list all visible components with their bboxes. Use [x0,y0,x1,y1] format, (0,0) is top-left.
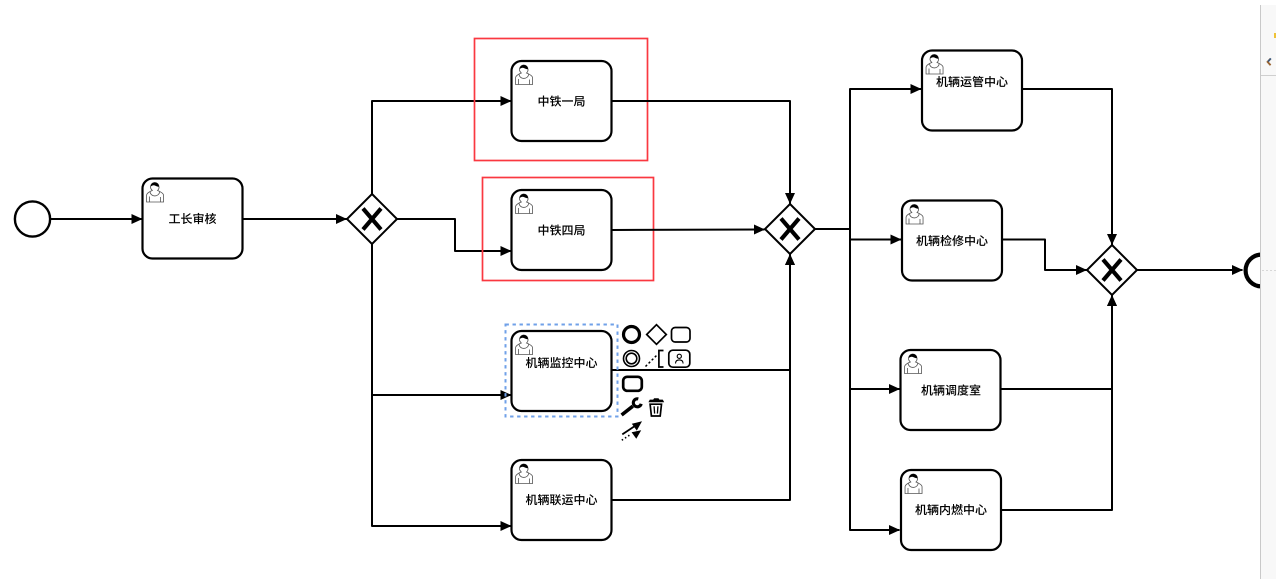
red highlight box around 中铁一局 [475,39,648,161]
sequence flow: 机辆内燃中心 to gateway3 [1002,296,1113,511]
sequence flow: 工长审核 to gateway1 [243,218,347,220]
end event [1246,255,1276,287]
context pad icon: append intermediate event [624,351,640,367]
sequence flow: gateway1 to 机辆联运中心 [372,245,511,527]
start event [15,201,50,236]
sequence flow: 机辆检修中心 to gateway3 [1003,240,1087,271]
context pad icon: append text annotation [646,356,657,367]
sequence flow: gateway1 to 中铁一局 [372,101,511,194]
sequence flow: gateway2 to 机辆调度室 [850,229,900,389]
sequence flow: gateway1 to 机辆监控中心 [372,245,511,396]
panel collapse chevron [1265,57,1273,67]
context pad icon: append gateway [647,325,667,345]
sequence flow: 机辆运管中心 to gateway3 [1023,89,1113,245]
sequence flow: 机辆联运中心 to gateway2 [612,255,790,501]
sequence flow: gateway2 to 机辆运管中心 [816,89,922,229]
sequence flow: gateway2 to 机辆检修中心 [816,229,902,240]
user task: 机辆监控中心 [512,331,612,411]
sequence flow: 中铁四局 to gateway2 [612,229,765,232]
sequence flow: 机辆监控中心 to gateway2 [612,255,790,371]
user task: 工长审核 [143,179,243,259]
user task: 机辆联运中心 [512,460,612,540]
sequence flow: start to 工长审核 [51,218,143,220]
sequence flow: 中铁一局 to gateway2 [612,101,790,204]
red highlight box around 中铁四局 [483,178,654,281]
sequence flow: gateway2 to 机辆内燃中心 [850,229,900,530]
sequence flow: gateway3 to end event [1138,269,1243,271]
user task: 机辆运管中心 [922,51,1022,131]
context pad icon: append subprocess [623,377,642,391]
user task: 中铁四局 [512,190,612,270]
sequence flow: gateway1 to 中铁四局 [398,219,512,251]
user task: 机辆内燃中心 [901,470,1001,550]
right collapsed properties panel [1260,5,1276,579]
exclusive gateway: gateway 2 [765,204,815,254]
faint flow hint inside panel [1262,270,1276,271]
context pad icon: wrench (change type) [622,399,642,415]
user task: 机辆检修中心 [902,201,1002,281]
sequence flow: 机辆调度室 to gateway3 [1001,296,1112,390]
context pad icon: connect arrows [622,421,642,440]
context pad icon: trash (delete) [648,398,664,416]
context pad icon: append task [672,328,691,343]
panel toggle divider [1261,75,1276,76]
user task: 机辆调度室 [901,350,1001,430]
context pad icon: append user task [669,350,690,367]
context pad icon: append end event [624,327,640,343]
exclusive gateway: gateway 3 [1087,245,1137,295]
selection dashed outline on 机辆监控中心 [506,325,618,417]
exclusive gateway: gateway 1 [347,194,397,244]
warning mark (clipped) [1274,33,1276,38]
user task: 中铁一局 [512,61,612,141]
